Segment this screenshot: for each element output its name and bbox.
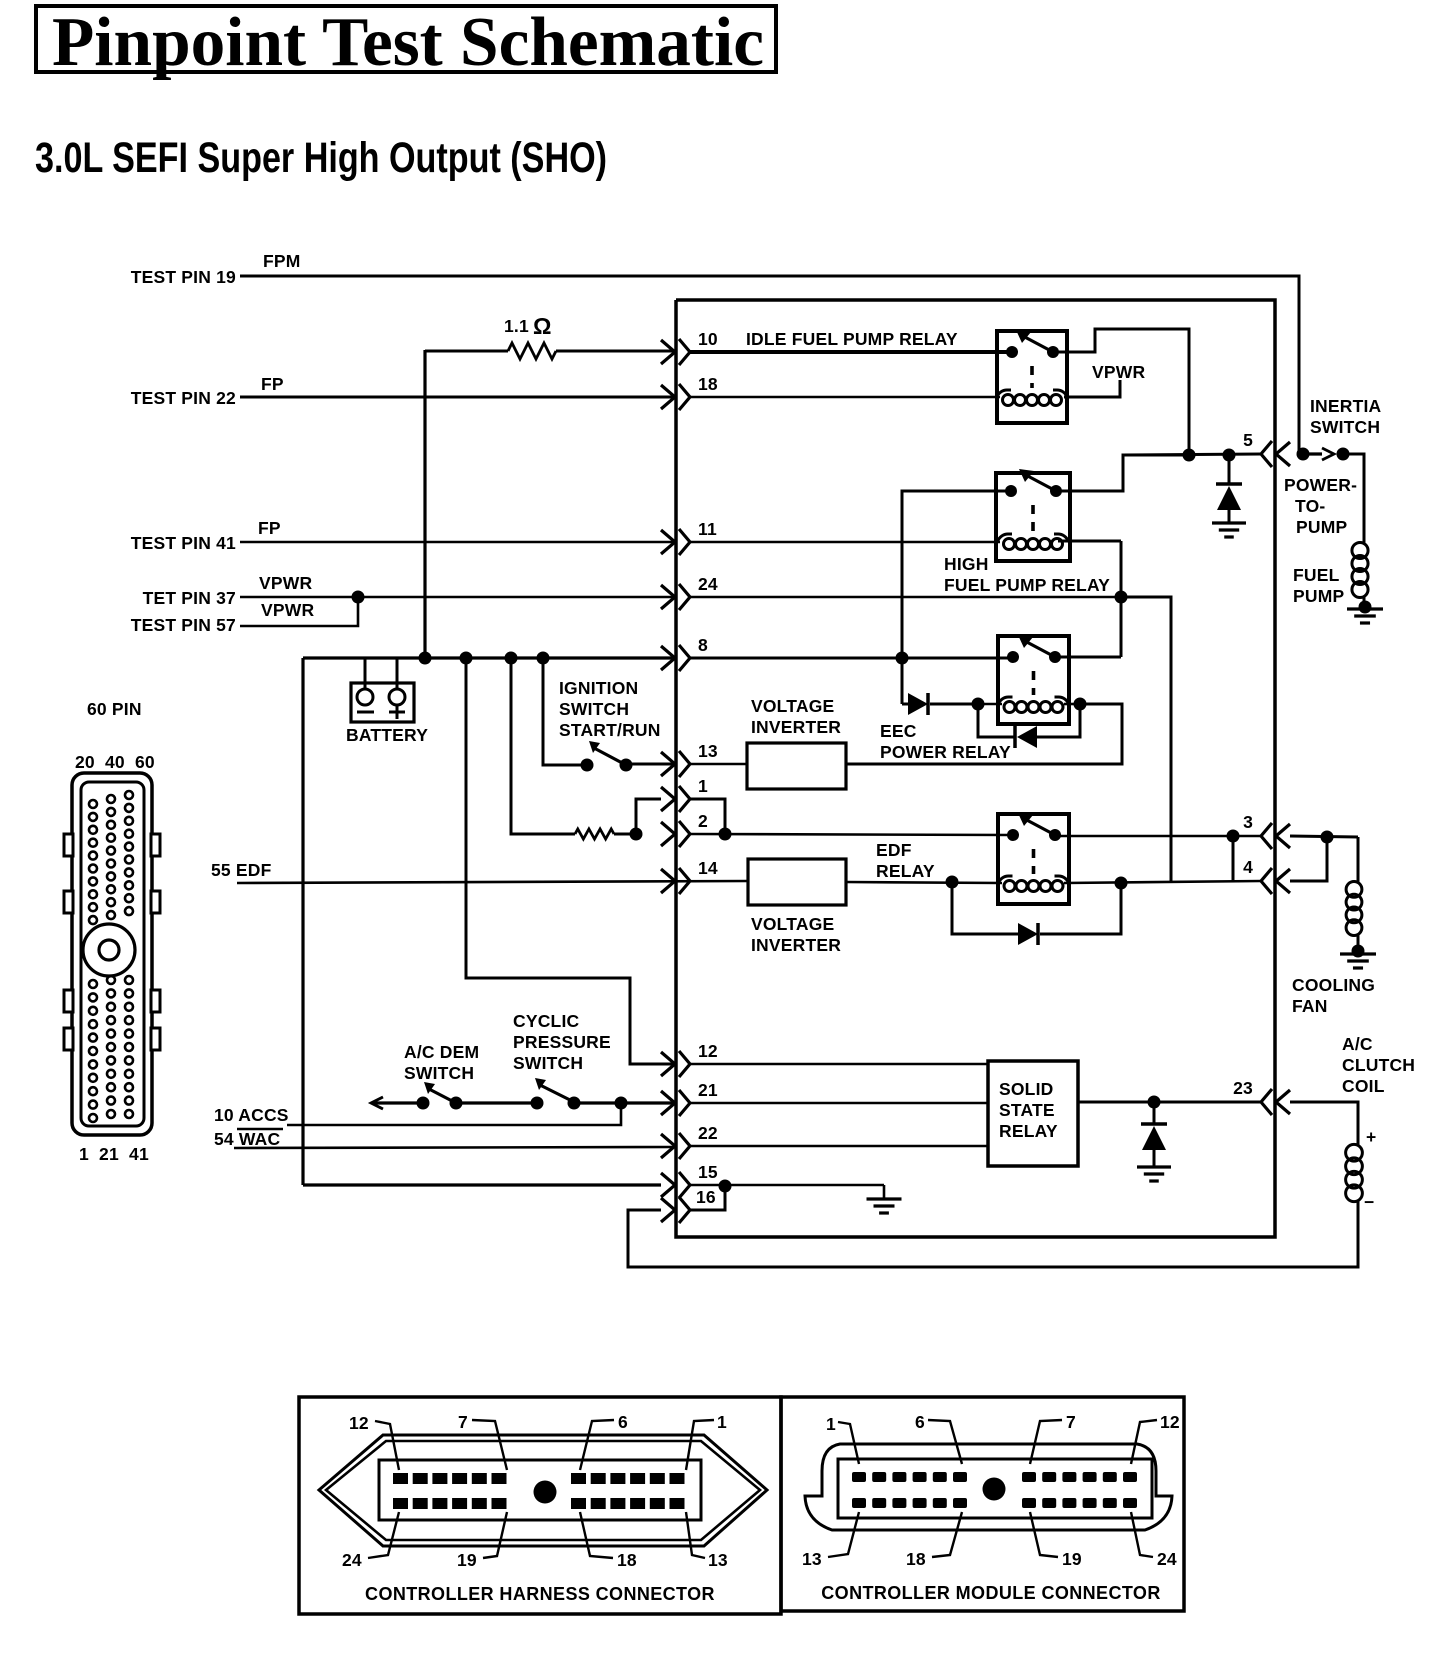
svg-text:11: 11 [698, 519, 717, 539]
svg-text:VOLTAGE: VOLTAGE [751, 696, 834, 716]
svg-text:24: 24 [1157, 1549, 1177, 1569]
node junction pin1/pin2 right [719, 828, 732, 841]
svg-text:15: 15 [698, 1162, 718, 1182]
wire to cooling fan coil [1357, 837, 1360, 883]
60 pin connector pin holes [89, 800, 97, 808]
svg-text:A/C: A/C [1342, 1034, 1373, 1054]
wire pin 11 to high fuel pump relay coil [690, 541, 1000, 544]
pin 21 connector [661, 1091, 675, 1115]
node EDF coil left node [946, 876, 959, 889]
svg-text:VPWR: VPWR [259, 573, 312, 593]
svg-text:POWER-: POWER- [1284, 475, 1357, 495]
svg-text:IDLE FUEL PUMP RELAY: IDLE FUEL PUMP RELAY [746, 329, 958, 349]
ground G1 below CR1 [1212, 521, 1246, 524]
pin 24 connector [661, 585, 675, 609]
wire cyclic switch to pin 21 [574, 1101, 675, 1104]
svg-text:12: 12 [1160, 1412, 1180, 1432]
node bus junction A (x425) [419, 652, 432, 665]
svg-text:10: 10 [698, 329, 718, 349]
svg-text:CONTROLLER HARNESS CONNECTOR: CONTROLLER HARNESS CONNECTOR [365, 1584, 715, 1604]
node junction high relay leg on pin8 bus [896, 652, 909, 665]
svg-text:19: 19 [1062, 1549, 1082, 1569]
battery B1 [351, 683, 414, 722]
svg-text:14: 14 [698, 858, 718, 878]
svg-text:12: 12 [698, 1041, 718, 1061]
svg-text:VPWR: VPWR [261, 600, 314, 620]
resistor R2 (pin 2 feed) [575, 829, 614, 839]
wire high relay coil to pin 24 line [1058, 540, 1121, 543]
pin 23 connector [1276, 1090, 1290, 1114]
svg-text:24: 24 [342, 1550, 362, 1570]
wire A/C clutch coil return loop to pin 16 [628, 1200, 1358, 1267]
svg-text:3.0L SEFI Super High Output (S: 3.0L SEFI Super High Output (SHO) [35, 134, 607, 182]
wire pin 13 to voltage inverter [690, 763, 748, 766]
svg-text:3: 3 [1243, 812, 1253, 832]
ground G2 fuel pump [1347, 607, 1383, 610]
wire left bus to pin 15 [303, 1183, 661, 1186]
svg-text:2: 2 [698, 811, 708, 831]
wire EEC coil right segment [1064, 703, 1080, 706]
svg-text:19: 19 [457, 1550, 477, 1570]
svg-text:INVERTER: INVERTER [751, 935, 841, 955]
svg-text:18: 18 [906, 1549, 926, 1569]
wire pin 2 to EDF relay switch [690, 834, 1012, 835]
pin 3 connector [1276, 824, 1290, 848]
pin 8 connector [661, 646, 675, 670]
svg-text:A/C DEM: A/C DEM [404, 1042, 479, 1062]
voltage inverter U2 [748, 859, 846, 905]
pin 12 connector [661, 1052, 675, 1076]
svg-text:60 PIN: 60 PIN [87, 699, 142, 719]
svg-text:SWITCH: SWITCH [404, 1063, 474, 1083]
wire TEST PIN 22 to pin 18 [240, 396, 675, 399]
wire pin 24 to EDF coil line [1121, 597, 1171, 883]
pin 13 connector [661, 752, 675, 776]
svg-text:INERTIA: INERTIA [1310, 396, 1382, 416]
harness connector insert rect [379, 1460, 701, 1520]
svg-text:BATTERY: BATTERY [346, 725, 428, 745]
harness connector pins [393, 1473, 408, 1484]
svg-text:TO-: TO- [1295, 496, 1325, 516]
svg-text:18: 18 [698, 374, 718, 394]
wire high relay switch to pin 5 line [1056, 455, 1189, 491]
svg-text:POWER RELAY: POWER RELAY [880, 742, 1011, 762]
node junction 10 ACCS [615, 1097, 628, 1110]
wire bus to pin2 resistor [511, 658, 568, 834]
svg-text:12: 12 [349, 1413, 369, 1433]
svg-text:1: 1 [717, 1412, 727, 1432]
svg-text:1 21 41: 1 21 41 [79, 1144, 149, 1164]
pin 10 connector [661, 340, 675, 364]
wire idle relay coil to VPWR stub [1064, 380, 1120, 397]
wire pin 24 line [690, 596, 1121, 599]
relay K1 idle fuel pump relay [997, 331, 1067, 423]
wire pin 4 external jumper [1290, 837, 1327, 881]
wire pin 21 to solid state relay [690, 1102, 988, 1105]
wire EEC coil to pin 13 [846, 704, 1122, 764]
wire solid state relay to pin 23 [1078, 1101, 1261, 1104]
cyclic pressure switch S4 [531, 1097, 544, 1110]
svg-text:PUMP: PUMP [1296, 517, 1347, 537]
wire TEST PIN 41 to pin 11 [240, 541, 675, 544]
module connector shell outline [805, 1444, 1172, 1530]
svg-text:5: 5 [1243, 430, 1253, 450]
pin 11 connector [661, 530, 675, 554]
pin 14 connector [661, 869, 675, 893]
svg-text:TEST PIN 57: TEST PIN 57 [131, 615, 236, 635]
relay K4 EDF relay [998, 814, 1069, 904]
node fuel pump ground node [1359, 601, 1372, 614]
harness connector center hole [534, 1481, 557, 1504]
svg-text:4: 4 [1243, 857, 1253, 877]
module connector insert rect [838, 1459, 1152, 1518]
A/C clutch coil L1 [1346, 1144, 1363, 1161]
svg-text:1: 1 [826, 1414, 836, 1434]
svg-text:INVERTER: INVERTER [751, 717, 841, 737]
wire pin1 jumper left [636, 799, 661, 834]
wire pin 1 jumper right [690, 799, 725, 834]
wire 10 ACCS to switch junction [287, 1103, 621, 1125]
svg-text:13: 13 [708, 1550, 728, 1570]
svg-text:FAN: FAN [1292, 996, 1328, 1016]
svg-text:RELAY: RELAY [876, 861, 935, 881]
60 pin connector J1 body [72, 773, 152, 1135]
controller harness connector frame [299, 1397, 781, 1614]
wire 55 EDF to voltage inverter 2 [237, 881, 749, 883]
diode CR5 to ground at pin 23 [1153, 1102, 1156, 1124]
node junction pins 3/4 external [1321, 831, 1334, 844]
ground G4 below CR5 [1137, 1165, 1171, 1168]
relay K2 high fuel pump relay [996, 473, 1070, 561]
svg-text:1: 1 [698, 776, 708, 796]
svg-text:TEST PIN 41: TEST PIN 41 [131, 533, 236, 553]
node bus junction D (x543) [537, 652, 550, 665]
wire pin 22 to solid state relay [690, 1145, 988, 1148]
wire 54 WAC to pin 22 [234, 1147, 675, 1148]
svg-text:EDF: EDF [876, 840, 912, 860]
node junction pin15/16 [719, 1180, 732, 1193]
controller module connector frame [781, 1397, 1184, 1611]
wire open end arrow (A/C DEM) [371, 1097, 383, 1109]
wire high relay switch left leg [902, 491, 1012, 658]
wire pin 5 line [1123, 454, 1261, 455]
wire pin 12 to solid state relay [690, 1063, 988, 1066]
svg-text:VOLTAGE: VOLTAGE [751, 914, 834, 934]
wire inertia switch to fuel pump [1343, 454, 1364, 544]
svg-text:FP: FP [258, 518, 281, 538]
node junction FPM/inertia [1297, 448, 1310, 461]
diode CR3 freewheel EEC [978, 704, 1015, 737]
diode CR4 freewheel EDF [952, 882, 1018, 934]
voltage inverter U1 [747, 743, 846, 789]
pin 4 connector [1276, 869, 1290, 893]
svg-text:VPWR: VPWR [1092, 362, 1145, 382]
pin 1 connector [661, 787, 675, 811]
wire ignition switch to pin 13 [626, 763, 675, 766]
svg-text:CLUTCH: CLUTCH [1342, 1055, 1415, 1075]
svg-text:FP: FP [261, 374, 284, 394]
pin 15 connector [661, 1173, 675, 1197]
svg-text:FPM: FPM [263, 251, 301, 271]
svg-text:FUEL PUMP RELAY: FUEL PUMP RELAY [944, 575, 1110, 595]
node EEC coil left node [972, 698, 985, 711]
node junction pin1/pin2 left [630, 828, 643, 841]
wire TET PIN 37 to pin 24 [240, 596, 675, 599]
inertia switch S2 [1303, 452, 1322, 455]
svg-text:10 ACCS: 10 ACCS [214, 1105, 289, 1125]
wire EDF coil to pin 4 chevron [1064, 881, 1261, 883]
cooling fan motor coil M2 [1346, 881, 1362, 897]
wire battery positive terminal to bus [396, 658, 399, 689]
svg-text:13: 13 [802, 1549, 822, 1569]
svg-text:SWITCH: SWITCH [513, 1053, 583, 1073]
title box [36, 6, 776, 72]
svg-text:7: 7 [458, 1412, 468, 1432]
EEC module box outline [676, 300, 1275, 1237]
wire pin 8 to EEC relay switch [690, 657, 1012, 660]
module connector center hole [983, 1478, 1006, 1501]
pin 5 connector [1276, 442, 1290, 466]
svg-text:EEC: EEC [880, 721, 917, 741]
svg-text:PUMP: PUMP [1293, 586, 1344, 606]
pin 22 connector [661, 1134, 675, 1158]
wire EDF switch right to pin 3 [1055, 835, 1261, 838]
svg-text:TEST PIN 19: TEST PIN 19 [131, 267, 236, 287]
svg-text:54 WAC: 54 WAC [214, 1129, 281, 1149]
svg-text:16: 16 [696, 1187, 716, 1207]
wire bus down-left leg [301, 658, 304, 1185]
svg-text:TET PIN 37: TET PIN 37 [143, 588, 236, 608]
wire pin 15 to ground [690, 1184, 884, 1187]
pin 2 connector [661, 822, 675, 846]
svg-text:SWITCH: SWITCH [559, 699, 629, 719]
svg-text:CYCLIC: CYCLIC [513, 1011, 580, 1031]
svg-text:START/RUN: START/RUN [559, 720, 661, 740]
svg-text:21: 21 [698, 1080, 718, 1100]
svg-text:24: 24 [698, 574, 718, 594]
wire pin 10 to idle fuel pump relay [690, 350, 1012, 354]
node cooling fan ground node [1352, 945, 1365, 958]
svg-text:+: + [1366, 1127, 1376, 1147]
wire FPM from TEST PIN 19 to inertia switch [240, 276, 1299, 454]
svg-text:−: − [1364, 1192, 1374, 1212]
diode CR2 feed from bus [901, 658, 904, 704]
svg-text:Pinpoint Test Schematic: Pinpoint Test Schematic [52, 4, 764, 81]
wire pin 3 external [1290, 836, 1358, 837]
node bus junction C (x511) [505, 652, 518, 665]
ground G3 cooling fan [1340, 952, 1376, 955]
node junction pin5 at x1189 [1183, 449, 1196, 462]
fuel pump motor coil M1 [1352, 542, 1368, 558]
svg-text:SOLID: SOLID [999, 1079, 1053, 1099]
wire pin 18 to idle relay coil [690, 396, 1000, 399]
node junction pin5 at x1229 [1223, 449, 1236, 462]
pin 16 connector [661, 1198, 675, 1222]
ground G5 pins 15/16 [883, 1185, 886, 1198]
node EEC coil right node [1074, 698, 1087, 711]
wire cooling fan to ground [1357, 934, 1360, 951]
wire battery bus pin 8 [303, 656, 675, 659]
svg-text:13: 13 [698, 741, 718, 761]
svg-text:COIL: COIL [1342, 1076, 1385, 1096]
relay K3 EEC power relay [998, 636, 1069, 724]
svg-text:CONTROLLER MODULE CONNECTOR: CONTROLLER MODULE CONNECTOR [821, 1583, 1160, 1603]
node EDF coil right node [1115, 877, 1128, 890]
wire bus to pin 12 [466, 658, 675, 1064]
60 pin connector mounting hole [83, 924, 135, 976]
module connector pins [852, 1472, 866, 1482]
svg-text:HIGH: HIGH [944, 554, 989, 574]
svg-text:PRESSURE: PRESSURE [513, 1032, 611, 1052]
svg-text:RELAY: RELAY [999, 1121, 1058, 1141]
wire TEST PIN 57 joining pin 37 [240, 597, 358, 626]
resistor 1.1 ohm [508, 343, 556, 359]
svg-text:STATE: STATE [999, 1100, 1055, 1120]
wire pin3/pin4 jumper [1232, 836, 1235, 881]
diode CR1 to ground at pin 5 [1228, 455, 1231, 484]
wire pin 16 jumper to pin 15 node [690, 1186, 725, 1210]
svg-text:18: 18 [617, 1550, 637, 1570]
svg-text:55 EDF: 55 EDF [211, 860, 272, 880]
svg-text:6: 6 [618, 1412, 628, 1432]
node bus junction B (x466) [460, 652, 473, 665]
node junction pin 23 diode [1148, 1096, 1161, 1109]
svg-text:FUEL: FUEL [1293, 565, 1340, 585]
svg-text:IGNITION: IGNITION [559, 678, 638, 698]
wire between switches [456, 1101, 537, 1104]
svg-text:8: 8 [698, 635, 708, 655]
svg-text:20 40 60: 20 40 60 [75, 752, 155, 772]
wire idle relay switch to pin5 node [1053, 329, 1189, 454]
wire battery negative terminal to bus [364, 658, 367, 689]
solid state relay U3 [988, 1061, 1078, 1166]
svg-text:23: 23 [1233, 1078, 1253, 1098]
svg-text:7: 7 [1066, 1412, 1076, 1432]
svg-text:1.1: 1.1 [504, 316, 529, 336]
wire vertical from resistor to battery bus [423, 350, 426, 658]
wire EEC switch right to pin24 node [1055, 656, 1121, 659]
node junction pins 37/57 [352, 591, 365, 604]
svg-text:6: 6 [915, 1412, 925, 1432]
svg-text:SWITCH: SWITCH [1310, 417, 1380, 437]
harness connector shell outline [319, 1435, 767, 1546]
wire EEC coil left segment [978, 703, 1002, 706]
pin 18 connector [661, 385, 675, 409]
svg-text:Ω: Ω [533, 313, 551, 339]
svg-text:COOLING: COOLING [1292, 975, 1375, 995]
node junction pin3/pin4 jumper [1227, 830, 1240, 843]
svg-text:TEST PIN 22: TEST PIN 22 [131, 388, 236, 408]
ignition switch S1 [581, 759, 594, 772]
node junction pin24/coil [1115, 591, 1128, 604]
wire fuel pump to ground [1363, 596, 1366, 607]
wire pin 23 external to A/C clutch coil [1290, 1102, 1358, 1146]
wire bus to ignition switch [543, 658, 569, 765]
svg-text:22: 22 [698, 1123, 718, 1143]
A/C DEM switch S3 [417, 1097, 430, 1110]
wire inverter2 to EDF coil [846, 882, 1002, 883]
